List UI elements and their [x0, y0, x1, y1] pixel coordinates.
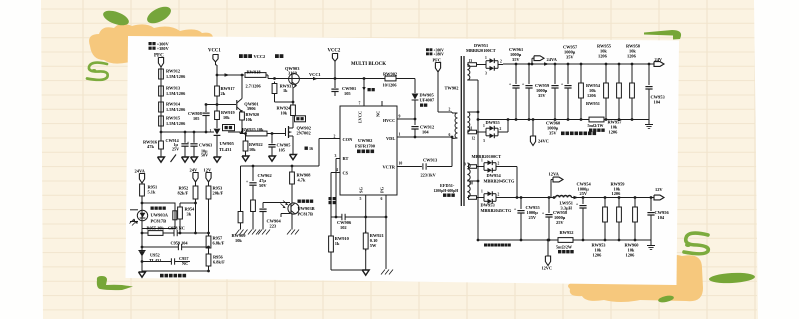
green L decoration bottom-left [97, 276, 133, 290]
optocoupler UW903B PC817B [281, 200, 315, 218]
orange blob bottom-right [568, 255, 703, 302]
pin label 6 [449, 133, 451, 137]
svg-text:82k/F: 82k/F [178, 191, 189, 196]
svg-text:35V: 35V [538, 93, 546, 98]
svg-text:RW914: RW914 [166, 102, 181, 107]
resistor RW924 [277, 103, 296, 118]
wire 24V bottom rail [478, 118, 649, 121]
svg-text:RW952: RW952 [560, 230, 574, 235]
svg-text:NC: NC [182, 261, 188, 266]
mosfet QW902 [286, 126, 311, 155]
resistor RW908 [290, 166, 312, 203]
pin number 1 [399, 133, 401, 137]
svg-text:1206: 1206 [609, 130, 619, 135]
svg-text:1.5M/1206: 1.5M/1206 [166, 121, 186, 126]
svg-text:VCC1: VCC1 [208, 48, 221, 53]
svg-text:RW913: RW913 [166, 86, 181, 91]
svg-text:5: 5 [360, 197, 362, 201]
svg-text:16: 16 [309, 146, 313, 151]
svg-text:10k: 10k [281, 110, 288, 115]
ground under CW905 [269, 156, 276, 161]
small green dot bottom-right [658, 294, 675, 303]
svg-text:1200μH-600μH: 1200μH-600μH [434, 189, 459, 193]
wire RW918 to QW903 [266, 75, 290, 80]
connector 24VA regulation [135, 169, 146, 185]
diode DW954 MBRB2045CTG [481, 159, 518, 199]
svg-text:13: 13 [469, 59, 473, 63]
transformer primary winding [452, 113, 458, 139]
svg-text:PC817B: PC817B [151, 219, 167, 224]
svg-text:PC817B: PC817B [298, 212, 313, 217]
svg-text:20k/F: 20k/F [213, 191, 224, 196]
wire RT pin3 [335, 159, 340, 219]
svg-text:DW954: DW954 [487, 173, 502, 178]
resistor RW957 label [608, 120, 623, 135]
wire opto B emitter [291, 214, 293, 230]
svg-text:10k: 10k [235, 238, 242, 243]
svg-text:UW905: UW905 [220, 141, 235, 146]
resistor RW955 [597, 44, 612, 120]
svg-text:VCC1: VCC1 [309, 72, 321, 77]
green bracket decoration top-right [644, 30, 681, 40]
wire CS node [331, 216, 342, 218]
wire LVCC pin7 [363, 79, 365, 106]
svg-text:12V: 12V [655, 187, 663, 192]
wire PFC to primary [438, 71, 452, 114]
pin label 11 [469, 127, 473, 131]
svg-text:3: 3 [483, 139, 485, 143]
label VCC1 [208, 48, 221, 53]
resistor RW919 [215, 98, 235, 128]
svg-text:5.1k: 5.1k [148, 190, 156, 195]
connector 12VC [542, 240, 553, 271]
svg-text:PFC: PFC [433, 58, 442, 63]
svg-text:223/1kV: 223/1kV [421, 173, 437, 178]
label MULTI BLOCK [351, 62, 386, 67]
wire VCC2 column [334, 62, 336, 79]
green ellipse decoration right [709, 272, 755, 284]
label pin16 [305, 146, 314, 151]
connector 24VC [530, 120, 548, 146]
capacitor CW959 [522, 64, 550, 120]
svg-text:3906: 3906 [247, 106, 257, 111]
resistor RW960 [625, 198, 640, 258]
ground under CW953 [645, 120, 653, 129]
svg-text:MBRB20100CT: MBRB20100CT [466, 48, 496, 53]
svg-text:RW915: RW915 [166, 116, 181, 121]
diode DW953 MBRB2045CTG [481, 190, 512, 214]
resistor RW951 current sense [588, 117, 605, 132]
svg-text:1: 1 [485, 56, 487, 60]
svg-text:3: 3 [335, 154, 337, 158]
capacitor CW901 [331, 79, 356, 97]
svg-text:UW903B: UW903B [298, 206, 315, 211]
transformer secondary winding 12V [467, 163, 484, 199]
pin number 5 [360, 197, 362, 201]
wire 24V top rail [503, 63, 654, 66]
ground under RW922 [242, 156, 249, 161]
svg-text:1206: 1206 [598, 54, 608, 59]
transformer core [461, 56, 464, 206]
svg-text:1206: 1206 [612, 191, 622, 196]
svg-text:RW902: RW902 [383, 72, 398, 77]
earth ground PG [381, 270, 393, 275]
resistor RW921 [363, 231, 384, 270]
wire 12V bottom rail [478, 239, 651, 242]
resistor RW910 [329, 217, 350, 270]
svg-text:R955 10k: R955 10k [147, 226, 165, 231]
green leaf right [144, 3, 173, 26]
diode DW951 MBRB20100CT [466, 43, 503, 76]
wire CS pin4 [331, 173, 340, 218]
shunt regulator UW905 TL431 [210, 129, 235, 157]
svg-text:1.5M/1206: 1.5M/1206 [166, 91, 186, 96]
svg-text:+: + [542, 211, 545, 216]
white schematic panel [126, 36, 680, 285]
svg-text:CON: CON [343, 137, 354, 142]
svg-text:35V: 35V [549, 131, 557, 136]
wire PG pin6 [385, 195, 387, 269]
pin number 6 [381, 197, 383, 201]
svg-text:LVCC: LVCC [358, 111, 363, 123]
pin number 4 [336, 168, 338, 172]
svg-text:2: 2 [498, 193, 500, 197]
green S squiggle top-left [87, 63, 108, 80]
svg-text:1k: 1k [283, 88, 288, 93]
svg-text:1: 1 [481, 190, 483, 194]
svg-text:105: 105 [193, 116, 199, 121]
pin number 9 [399, 115, 401, 119]
svg-text:MBRB2045CTG: MBRB2045CTG [484, 179, 515, 184]
svg-text:2.7/1206: 2.7/1206 [246, 84, 262, 89]
svg-text:105: 105 [279, 148, 285, 153]
svg-text:10/1206: 10/1206 [383, 83, 398, 88]
capacitor CW960 [546, 64, 572, 136]
resistor RW912 [159, 67, 186, 81]
resistor RW915 [159, 114, 186, 128]
svg-text:+: + [514, 207, 517, 212]
resistor RW913 [159, 84, 186, 98]
pin label 9t [464, 163, 466, 167]
svg-text:+: + [246, 179, 249, 184]
svg-text:12V: 12V [204, 168, 212, 173]
svg-text:25V: 25V [172, 146, 179, 151]
pin number 2 [334, 135, 336, 139]
capacitor CW912 [411, 119, 434, 138]
svg-text:24VA: 24VA [135, 169, 146, 174]
wire regulation bottom rail [142, 270, 210, 273]
wire C959 net [142, 246, 210, 249]
capacitor CW904 [259, 203, 281, 230]
svg-text:10: 10 [470, 182, 474, 186]
label secondary rectifier filter 24V [561, 132, 596, 136]
label regulation control circuit [160, 274, 186, 278]
resistor RW959 [603, 182, 626, 241]
svg-text:TL431: TL431 [149, 258, 161, 263]
left white page margin [0, 0, 43, 319]
wire LVCC rail [364, 78, 385, 80]
wire center tap return [477, 80, 480, 241]
svg-text:1k: 1k [335, 241, 340, 246]
resistor R952 [178, 184, 198, 234]
wire SG pin5 [365, 195, 367, 233]
label VCC1 on wire [309, 72, 321, 77]
svg-text:12: 12 [472, 137, 476, 141]
svg-text:12VC: 12VC [542, 266, 553, 271]
capacitor CW956 [647, 198, 669, 241]
node divider tap [160, 131, 163, 134]
wire CON net [241, 139, 320, 168]
svg-text:1.5M/1206: 1.5M/1206 [166, 107, 186, 112]
resistor RW931 [272, 82, 294, 104]
capacitor CW905 [268, 134, 290, 157]
wire signal ground rail [331, 269, 366, 271]
orange fruit blob top-left [89, 24, 213, 64]
svg-text:6: 6 [449, 133, 451, 137]
svg-text:PG: PG [380, 186, 385, 193]
svg-text:VCC2: VCC2 [254, 54, 266, 59]
capacitor CW906 [337, 214, 352, 230]
wire gate net [228, 132, 247, 135]
svg-text:TL431: TL431 [219, 147, 232, 152]
svg-text:1: 1 [210, 129, 212, 133]
svg-text:1206: 1206 [626, 253, 636, 258]
resistor R955 [147, 226, 165, 236]
svg-text:2: 2 [500, 60, 502, 64]
svg-text:VDL: VDL [386, 136, 395, 141]
svg-text:U952: U952 [150, 253, 160, 258]
resistor R957 [206, 234, 225, 250]
svg-text:C959 104: C959 104 [171, 241, 189, 246]
svg-text:TW902: TW902 [445, 86, 459, 91]
svg-text:2: 2 [500, 127, 502, 131]
pin label 12 [472, 137, 476, 141]
ground under CW962 [248, 230, 270, 235]
svg-text:10: 10 [399, 162, 403, 166]
connector 24V regulation [190, 168, 199, 187]
resistor RW922 [243, 134, 263, 157]
svg-text:10k: 10k [249, 147, 256, 152]
svg-text:6.8k/F: 6.8k/F [213, 260, 225, 265]
capacitor CW954 [576, 182, 592, 241]
svg-text:6: 6 [381, 197, 383, 201]
svg-text:50V: 50V [259, 183, 267, 188]
resistor R954 [178, 203, 196, 234]
label TW902 [445, 86, 459, 91]
connector 12V regulation [204, 168, 212, 187]
svg-text:+380V: +380V [157, 46, 170, 51]
connector 24V output [654, 57, 664, 67]
svg-text:+380V: +380V [434, 53, 445, 57]
svg-text:10k: 10k [246, 117, 253, 122]
svg-text:SG: SG [359, 187, 364, 193]
resistor RW917 [215, 65, 236, 98]
polarity slash mark [171, 155, 177, 163]
label transformer EFD51 [434, 183, 459, 197]
svg-text:10k: 10k [223, 115, 230, 120]
capacitor CW808 [188, 105, 210, 133]
right white page margin [754, 0, 799, 319]
resistor RW954 [579, 64, 601, 120]
svg-text:9: 9 [399, 115, 401, 119]
svg-text:UW903A: UW903A [151, 213, 169, 218]
svg-text:2k: 2k [221, 91, 226, 96]
svg-text:5W: 5W [370, 243, 377, 248]
wire VCC1 feed east [290, 77, 365, 80]
svg-text:102: 102 [340, 225, 347, 230]
resistor RW918 [245, 69, 266, 88]
svg-text:7: 7 [359, 102, 361, 106]
label secondary rectifier filter 12V [484, 244, 511, 247]
optocoupler UW903A PC817B [130, 203, 177, 229]
resistor R951 [140, 182, 158, 204]
label PFC secondary feed [426, 48, 444, 62]
svg-text:25V: 25V [556, 220, 564, 225]
resistor RW951 vertical [586, 64, 621, 120]
svg-text:RW918: RW918 [247, 69, 262, 74]
svg-text:RW925 10k: RW925 10k [242, 127, 264, 132]
capacitor CW961 [509, 47, 523, 120]
capacitor C957 [142, 256, 190, 266]
svg-text:UF4007: UF4007 [420, 98, 435, 103]
svg-text:RW912: RW912 [166, 69, 181, 74]
capacitor CW955 [514, 198, 541, 241]
stub NC pin [381, 101, 383, 106]
resistor RW925 [242, 127, 267, 136]
svg-text:1206: 1206 [627, 54, 637, 59]
svg-text:35V: 35V [566, 55, 574, 60]
transformer secondary winding 24V-A [467, 63, 486, 80]
svg-text:9: 9 [464, 163, 466, 167]
resistor R956 [206, 248, 225, 271]
wire 12V rail [503, 196, 654, 199]
pin number 7 [359, 102, 361, 106]
svg-text:50V: 50V [201, 153, 208, 158]
wire CW913 to primary [427, 139, 452, 167]
ground under RW916 [158, 157, 165, 162]
svg-text:MULTI BLOCK: MULTI BLOCK [351, 62, 386, 67]
resistor RW914 [159, 100, 186, 114]
svg-text:6.8k/F: 6.8k/F [213, 241, 225, 246]
ground under RW909 [236, 230, 248, 235]
pin label 13 [469, 59, 473, 63]
svg-text:DW953: DW953 [481, 203, 496, 208]
svg-text:2: 2 [449, 108, 451, 112]
wire VDL pin1 to transformer [397, 136, 453, 139]
on/off box label right [293, 116, 306, 127]
ground under UW905 [214, 157, 221, 162]
svg-text:HVCC: HVCC [383, 118, 395, 123]
svg-text:+: + [187, 140, 190, 145]
svg-text:VCTR: VCTR [383, 165, 396, 170]
transformer secondary winding 24V-B [467, 112, 486, 134]
inductor LW951 [556, 196, 574, 211]
svg-text:5mΩ/2W: 5mΩ/2W [556, 245, 573, 250]
ground under QW902 [290, 155, 297, 160]
wire HVCC pin9 [397, 118, 416, 121]
svg-text:1206: 1206 [587, 93, 597, 98]
connector 12V output [654, 187, 664, 200]
svg-text:4.7k: 4.7k [298, 178, 306, 183]
svg-text:+: + [576, 202, 579, 207]
label VCC2 [328, 49, 341, 54]
wire reference net horizontal [161, 131, 214, 134]
svg-text:24VA: 24VA [547, 57, 558, 62]
svg-text:3160: 3160 [288, 71, 298, 76]
diode DW955 MBRB20100CT [472, 118, 510, 159]
svg-text:1: 1 [399, 133, 401, 137]
svg-text:3: 3 [485, 72, 487, 76]
connector PFC input [158, 58, 163, 68]
capacitor C959 [171, 241, 189, 251]
label on/off VCC2 control [239, 54, 283, 59]
pin number 10 [399, 162, 403, 166]
capacitor CW962 [246, 166, 272, 200]
svg-text:25V: 25V [529, 215, 537, 220]
ground under UW903B [287, 230, 299, 235]
svg-text:11: 11 [469, 127, 473, 131]
wire PFC divider column [160, 67, 162, 132]
wire RW902 to DW905 [396, 79, 415, 94]
svg-text:+: + [509, 82, 512, 87]
svg-text:1: 1 [481, 159, 483, 163]
svg-text:1206: 1206 [593, 253, 603, 258]
connector PFC to transformer [435, 63, 440, 73]
svg-text:24VC: 24VC [538, 139, 549, 144]
label overcurrent protect [329, 197, 336, 204]
wire CON to IC [319, 138, 340, 140]
ground under CW956 [647, 240, 655, 250]
wire QW902 gate [267, 132, 286, 135]
resistor RW909 [232, 166, 247, 243]
wire QW901 base net [205, 103, 236, 106]
ground regulation [139, 271, 146, 277]
capacitor C958 [168, 226, 185, 237]
svg-text:FSFR1700: FSFR1700 [355, 144, 376, 149]
svg-text:104: 104 [658, 215, 665, 220]
wire VCC1 column [216, 62, 230, 77]
resistor below CW962 [251, 198, 256, 230]
connector 24VA [532, 56, 558, 66]
transistor QW901 [237, 74, 259, 113]
svg-text:2N7002: 2N7002 [297, 131, 311, 136]
svg-text:+: + [522, 82, 525, 87]
label standby/on voltage PFC input [149, 42, 170, 59]
wire feedback net [142, 232, 210, 235]
svg-text:CW913: CW913 [423, 158, 438, 163]
pin label 10t [470, 182, 474, 186]
on/off box label left [223, 125, 235, 131]
svg-text:24V: 24V [655, 57, 663, 62]
svg-text:1.5M/1206: 1.5M/1206 [166, 74, 186, 79]
svg-text:104: 104 [422, 130, 429, 135]
resistor RW920 [240, 110, 260, 133]
capacitor CW958 [542, 198, 568, 241]
resistor RW953 [592, 198, 622, 258]
svg-text:UW902: UW902 [358, 138, 373, 143]
svg-text:MBRB2045CTG: MBRB2045CTG [481, 208, 512, 213]
svg-text:25V: 25V [580, 191, 588, 196]
ground under CW914 [182, 157, 189, 162]
resistor RW916 [143, 132, 163, 157]
svg-text:5mΩ/1W: 5mΩ/1W [588, 123, 605, 128]
svg-text:DW955: DW955 [486, 120, 501, 125]
ground under CW963 [191, 157, 198, 162]
svg-text:CW963: CW963 [199, 142, 212, 147]
resistor RW902 [383, 72, 398, 88]
op-amp U1 IC UW902 FSFR1700 [340, 106, 397, 195]
wire opto A cathode [141, 229, 144, 272]
